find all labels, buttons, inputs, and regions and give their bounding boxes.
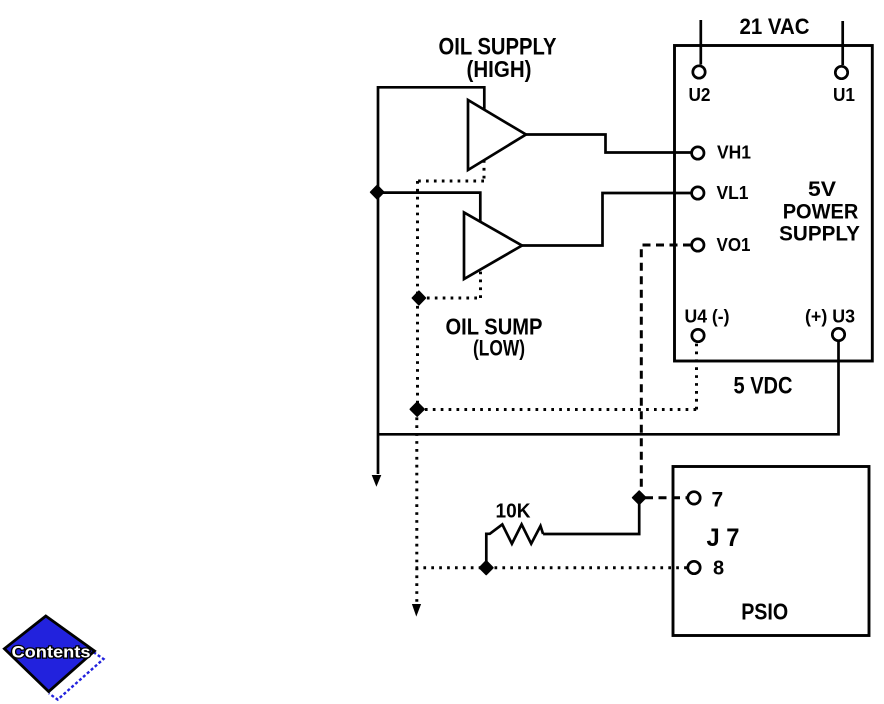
svg-text:U2: U2 [689, 85, 711, 105]
terminal VO1 [692, 239, 704, 251]
wire top-left to oil supply sensor input [378, 87, 484, 110]
node C junction [410, 402, 424, 416]
svg-text:VO1: VO1 [717, 235, 751, 255]
dotted wire node C down to arrow [415, 410, 418, 603]
contents button diamond [4, 616, 94, 692]
power supply box [675, 46, 873, 362]
svg-text:U4 (-): U4 (-) [685, 307, 730, 327]
node B junction [412, 291, 425, 305]
node A junction [371, 185, 384, 199]
dotted wire node C to U4 [417, 343, 697, 410]
wire 21VAC stub to U2 [699, 20, 702, 65]
svg-text:21 VAC: 21 VAC [740, 14, 810, 39]
svg-text:(+) U3: (+) U3 [805, 307, 855, 327]
wire node A to oil sump sensor input [377, 193, 480, 221]
svg-text:U1: U1 [833, 85, 855, 105]
oil supply sensor (triangle) [468, 100, 526, 170]
svg-text:5V: 5V [808, 178, 836, 201]
terminal VH1 [692, 147, 704, 159]
terminal U3 [832, 328, 844, 340]
connector J7 box [673, 467, 869, 636]
svg-text:(HIGH): (HIGH) [467, 56, 532, 82]
svg-text:10K: 10K [496, 501, 532, 523]
resistor R 10K [486, 524, 543, 543]
svg-text:PSIO: PSIO [741, 599, 788, 625]
dotted wire node B to oil sump bottom input [419, 269, 481, 298]
svg-text:(LOW): (LOW) [473, 336, 525, 361]
dotted wire node B down to node C [416, 298, 419, 407]
dotted wire oil supply bottom input [483, 160, 486, 181]
node E junction [480, 561, 493, 574]
arrow down solid [372, 475, 382, 487]
wire resistor left lead down to node E [485, 533, 488, 567]
dotted wire to J7 pin 8 [416, 566, 688, 569]
node D junction [633, 491, 646, 504]
svg-text:7: 7 [712, 489, 724, 512]
wire oil sump output to VL1 [522, 193, 691, 246]
wire 21VAC stub to U1 [841, 21, 844, 65]
wire oil supply output to VH1 [526, 135, 691, 153]
svg-text:5 VDC: 5 VDC [734, 373, 793, 400]
oil sump sensor (triangle) [464, 213, 522, 280]
terminal U4 [692, 329, 704, 341]
dashed wire node D to J7 pin 7 [645, 496, 688, 499]
svg-text:J 7: J 7 [707, 524, 740, 552]
wire left main vertical [377, 86, 380, 474]
contents button shadow [49, 638, 104, 700]
terminal J7 pin7 [688, 492, 700, 504]
wire bottom horizontal to U3 [377, 342, 839, 435]
terminal U2 [693, 66, 705, 78]
terminal J7 pin8 [688, 561, 700, 573]
svg-text:VH1: VH1 [717, 143, 751, 163]
arrow down dotted wire [412, 604, 421, 617]
dotted wire to left [418, 180, 485, 183]
terminal U1 [835, 66, 847, 78]
svg-text:POWER: POWER [783, 200, 859, 223]
dotted wire vertical down to node B [416, 181, 419, 296]
dashed wire VO1 [641, 245, 691, 492]
terminal VL1 [692, 187, 704, 199]
svg-text:8: 8 [713, 558, 724, 580]
wire node D down to resistor [543, 498, 639, 534]
svg-text:Contents: Contents [12, 644, 91, 662]
svg-text:SUPPLY: SUPPLY [779, 223, 860, 246]
svg-text:VL1: VL1 [717, 183, 749, 203]
